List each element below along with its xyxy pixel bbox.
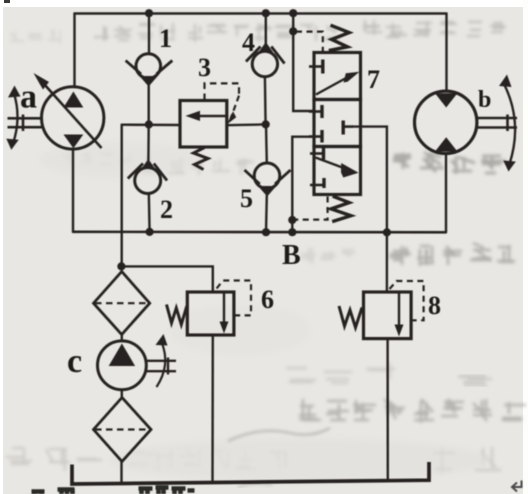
junction: pilot tap lower branch	[288, 216, 296, 224]
pressure valve 8 (spring W, pilot)	[339, 281, 424, 339]
check valve 1	[126, 54, 173, 87]
svg-text:b: b	[478, 87, 491, 113]
wire: pilot tap lower (valve 7 port to lower rail)	[292, 137, 314, 233]
wire: mid rail to check valve 5	[265, 124, 268, 164]
wire: tank rail	[72, 462, 429, 484]
wire: mid rail right segment (valve 3 outlet)	[227, 123, 267, 126]
svg-text:c: c	[67, 343, 82, 380]
junction: top rail / valve 4	[262, 9, 270, 17]
wire: top rail to hydraulic motor b top port	[445, 13, 447, 92]
junction: pilot tap upper branch	[289, 27, 297, 35]
relief valve 3 (pilot operated)	[180, 83, 239, 169]
wire: valve 6 outlet to tank rail	[211, 335, 214, 484]
wire: check valve 1 branch (top rail to valve 1)	[148, 13, 150, 56]
svg-text:8: 8	[428, 291, 441, 320]
pump a (bidirectional variable-displacement pump)	[6, 73, 104, 150]
junction: charge line / valve 6 branch	[117, 262, 125, 270]
valve 7 upper spring	[329, 25, 349, 50]
wire: check valve 5 to lower rail	[265, 195, 268, 233]
junction: top rail / valve 1	[145, 9, 153, 17]
junction: mid rail / valve 1-2	[145, 120, 153, 128]
junction: mid rail / valve 4-5	[262, 120, 270, 128]
junction: lower rail / valve 5	[262, 228, 270, 236]
wire: filter F2 to tank rail	[120, 461, 122, 485]
filter F2 (return)	[94, 398, 152, 462]
wire: pump a bottom port to lower rail	[72, 149, 74, 233]
wire: valve 7 outlet to valve 8 feed	[352, 127, 387, 293]
return mark	[512, 481, 522, 492]
svg-text:3: 3	[198, 53, 211, 82]
junction: lower rail / valve 8 feed	[383, 228, 391, 236]
pump c (fixed displacement charge pump)	[98, 334, 177, 390]
svg-text:7: 7	[367, 65, 380, 94]
wire: top rail to check valve 4	[265, 13, 267, 44]
wire: mid rail left segment (valve 3 inlet)	[122, 123, 181, 126]
wire: motor b bottom port to lower rail	[445, 153, 447, 234]
junction: lower rail / pilot tap	[288, 228, 296, 236]
wire: check valve 2 to lower rail	[148, 193, 151, 233]
svg-text:a: a	[20, 79, 37, 116]
wire: check valve 4 to mid rail	[264, 77, 267, 125]
svg-text:2: 2	[160, 195, 173, 224]
wire: lower rail (node B line)	[73, 231, 447, 234]
pilot-operated directional valve 7 (3-position)	[309, 53, 361, 195]
valve 7 upper pilot line (dashed)	[296, 32, 323, 51]
check valve 5	[245, 163, 291, 197]
caption fragment (bottom, clipped)	[32, 488, 195, 494]
filter F1 (suction)	[94, 272, 150, 335]
valve 7 lower spring	[331, 196, 351, 221]
svg-text:B: B	[282, 240, 301, 271]
wire: top rail to pump a top port	[73, 13, 75, 88]
wire: mid rail to check valve 2	[147, 124, 150, 161]
wire: pilot tap upper (top rail to valve 7 port)	[293, 13, 314, 112]
junction: lower rail / valve 2	[146, 228, 154, 236]
check valve 2	[128, 159, 167, 194]
valve 7 lower pilot line (dashed)	[295, 197, 328, 220]
wire: mid rail down to charge line	[120, 124, 122, 268]
pressure valve 6 (spring W, pilot)	[167, 281, 252, 336]
wire: charge pump line to valve 6	[121, 266, 213, 292]
wire: check valve 1 to mid rail	[147, 85, 149, 125]
svg-text:4: 4	[242, 28, 255, 57]
motor b (bidirectional hydraulic motor)	[415, 75, 518, 172]
svg-text:1: 1	[159, 24, 172, 53]
check valve 4	[246, 42, 285, 77]
junction: top rail / pilot tap	[289, 9, 297, 17]
wire: valve 8 outlet to tank rail	[386, 338, 389, 482]
wire: pump c to filter F2	[121, 389, 123, 398]
wire: top rail	[74, 12, 447, 15]
svg-text:6: 6	[261, 285, 274, 314]
svg-text:5: 5	[240, 184, 253, 213]
wire: filter F1 to pump c	[121, 334, 123, 342]
